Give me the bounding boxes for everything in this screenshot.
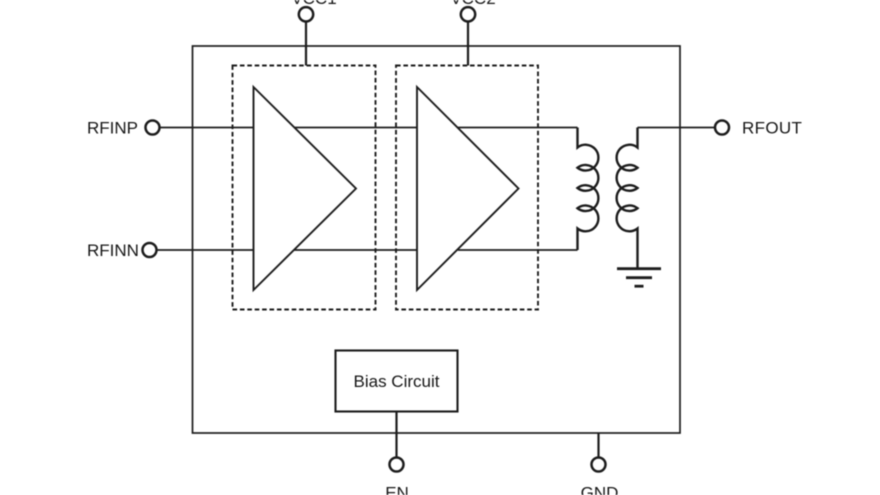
wire A2 output to transformer primary bottom xyxy=(458,249,578,251)
wire GND stem xyxy=(597,433,599,458)
bias circuit box xyxy=(336,351,458,412)
dashed stage box 1 xyxy=(233,66,376,310)
wire RFINN to A1 input xyxy=(157,249,254,251)
pin EN terminal circle xyxy=(390,458,404,472)
svg-text:RFOUT: RFOUT xyxy=(742,119,802,138)
wire A1 output to A2 input (positive) xyxy=(294,127,417,129)
svg-text:RFINN: RFINN xyxy=(87,241,139,260)
wire A1 output to A2 input (negative) xyxy=(294,249,417,251)
pin VCC2 terminal circle xyxy=(461,7,475,21)
amplifier A1 xyxy=(254,87,357,290)
pin RFINN terminal circle xyxy=(143,243,157,257)
wire A2 output to transformer primary top xyxy=(458,127,578,129)
wire RFINP to A1 input xyxy=(160,127,254,129)
amplifier A2 xyxy=(417,87,519,290)
wire bias circuit to EN pin xyxy=(395,412,397,458)
svg-text:Bias Circuit: Bias Circuit xyxy=(354,372,440,391)
transformer secondary winding L2 xyxy=(617,128,638,269)
svg-text:VCC2: VCC2 xyxy=(450,0,495,8)
pin RFOUT terminal circle xyxy=(715,121,729,135)
wire VCC1 stem xyxy=(305,21,307,65)
dashed stage box 2 xyxy=(396,66,538,310)
pin RFINP terminal circle xyxy=(146,121,160,135)
wire secondary top to RFOUT xyxy=(638,127,715,129)
ground symbol xyxy=(617,269,661,287)
wire VCC2 stem xyxy=(467,21,469,65)
pin VCC1 terminal circle xyxy=(299,7,313,21)
transformer primary winding L1 xyxy=(578,128,599,251)
svg-text:EN: EN xyxy=(385,484,409,495)
svg-text:RFINP: RFINP xyxy=(87,119,138,138)
svg-text:VCC1: VCC1 xyxy=(291,0,336,8)
svg-text:GND: GND xyxy=(581,484,619,495)
pin GND terminal circle xyxy=(592,458,606,472)
outer block boundary rectangle xyxy=(193,46,681,433)
